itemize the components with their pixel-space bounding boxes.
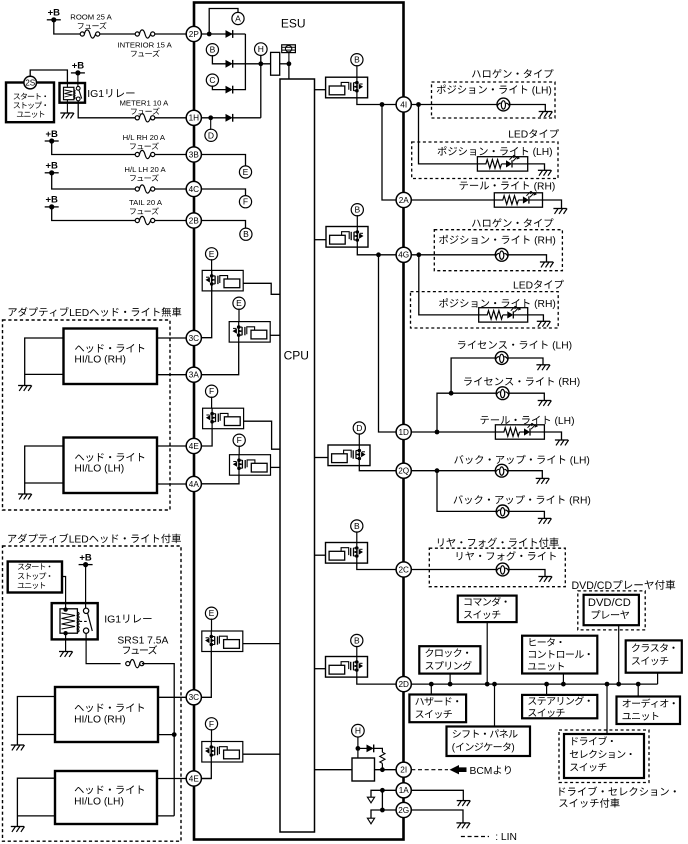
junction — [636, 682, 641, 687]
label LED type — [508, 129, 559, 141]
label backup light LH — [454, 455, 590, 467]
wire to CPU — [243, 643, 280, 645]
diode B — [226, 60, 233, 68]
label backup light RH — [454, 495, 591, 507]
svg-text:(RH): (RH) — [534, 181, 556, 192]
wire — [508, 358, 543, 365]
wire — [158, 734, 174, 736]
svg-text:E: E — [209, 249, 215, 259]
node 2I — [396, 762, 411, 777]
svg-text:(LH): (LH) — [552, 341, 572, 352]
label IG1 relay — [87, 88, 134, 100]
legend dash — [461, 836, 489, 838]
wire — [657, 673, 659, 684]
junction — [429, 682, 434, 687]
wire — [411, 104, 497, 106]
wire — [411, 431, 495, 433]
wire — [201, 475, 239, 484]
junction — [380, 808, 385, 813]
label rear fog light — [457, 551, 556, 560]
ground — [457, 801, 471, 806]
label position light LH — [437, 85, 552, 97]
node 2C — [396, 562, 411, 577]
wire from CPU — [315, 668, 326, 670]
svg-text:F: F — [243, 197, 248, 207]
label position light RH — [439, 298, 556, 310]
svg-text:LED: LED — [69, 534, 89, 545]
wire — [508, 471, 542, 479]
driver U-B1 — [326, 77, 368, 98]
lamp rear fog — [496, 563, 509, 576]
box heater control unit — [522, 636, 597, 674]
svg-text:B: B — [243, 229, 249, 239]
svg-text:E: E — [243, 167, 249, 177]
ground — [59, 652, 73, 657]
label TAIL 20 A — [129, 198, 163, 207]
junction — [208, 115, 213, 120]
label from BCM — [470, 766, 511, 777]
diode 1H — [226, 114, 233, 122]
wire to node A — [209, 9, 238, 35]
label IG1 relay 2 — [104, 614, 151, 626]
ground — [536, 365, 550, 370]
label fuse — [123, 645, 157, 654]
svg-text:IG1: IG1 — [87, 88, 104, 100]
wire — [155, 188, 186, 190]
label fuse — [130, 207, 159, 214]
wire — [430, 684, 432, 694]
wire — [238, 309, 240, 322]
driver U-E2 — [229, 322, 270, 343]
node 2Q — [396, 463, 411, 478]
junction — [605, 682, 610, 687]
junction — [287, 61, 292, 66]
ground — [540, 262, 554, 267]
box drive selection outer — [559, 730, 649, 783]
node 4E — [186, 438, 201, 453]
box section dashed 2 — [3, 546, 182, 841]
wire — [449, 674, 451, 685]
node B — [351, 54, 363, 66]
node 3A — [186, 367, 201, 382]
lamp backup LH — [495, 464, 508, 477]
wire 4I to 2A — [382, 105, 396, 201]
box shift panel — [447, 727, 531, 757]
legend LIN — [495, 832, 517, 843]
floating terminal — [367, 818, 374, 824]
battery +B ROOM — [47, 8, 61, 23]
label fuse — [131, 108, 160, 115]
svg-text:SRS1 7.5A: SRS1 7.5A — [117, 636, 168, 647]
box section dashed — [3, 320, 171, 510]
svg-text:4E: 4E — [189, 442, 200, 451]
svg-text:2I: 2I — [400, 766, 407, 775]
wire — [211, 397, 213, 409]
wire — [356, 65, 358, 77]
wire — [411, 470, 495, 472]
lamp license RH — [496, 387, 509, 400]
label METER1 10 A — [120, 99, 170, 108]
wire — [509, 393, 544, 400]
box clock spring — [419, 646, 480, 673]
junction — [416, 252, 421, 257]
wire — [158, 696, 186, 698]
wire — [17, 697, 55, 746]
wire to CPU — [243, 283, 280, 294]
wire — [356, 531, 358, 542]
box commander switch — [458, 596, 517, 623]
svg-text:B: B — [210, 45, 216, 55]
junction — [448, 682, 453, 687]
fuse TAIL 20 A — [135, 216, 155, 224]
svg-text:): ) — [511, 743, 514, 754]
label H/L RH 20 A — [123, 133, 166, 142]
junction — [492, 682, 497, 687]
wire — [25, 482, 64, 484]
ground — [538, 577, 552, 582]
junction — [616, 682, 621, 687]
box hazard switch — [409, 695, 466, 723]
svg-text:HI/LO (LH): HI/LO (LH) — [74, 796, 124, 807]
label unit — [17, 111, 44, 118]
wire from CPU — [315, 89, 326, 91]
svg-text:3B: 3B — [189, 150, 200, 159]
wire — [451, 358, 495, 393]
wire — [358, 747, 367, 749]
svg-text:B: B — [354, 205, 360, 215]
svg-text:4A: 4A — [189, 480, 200, 489]
wire — [25, 338, 64, 386]
ground — [18, 386, 32, 391]
svg-text:ROOM 25 A: ROOM 25 A — [70, 13, 112, 22]
svg-text:DVD/CD: DVD/CD — [588, 597, 631, 609]
LED resistor lamp — [479, 306, 528, 322]
wire — [357, 737, 359, 758]
wire — [155, 220, 186, 222]
wire LIN to BCM — [411, 769, 448, 771]
node 1A — [396, 783, 411, 798]
svg-text:B: B — [354, 55, 360, 65]
box LED RH — [411, 292, 559, 328]
wire — [637, 684, 639, 696]
battery +B H/L RH — [45, 129, 59, 144]
wire — [357, 247, 396, 255]
box rear fog — [429, 548, 565, 587]
label HI/LO LH — [74, 796, 124, 807]
node B — [351, 204, 363, 216]
node 4I — [396, 97, 411, 112]
wire — [78, 101, 136, 118]
ground — [538, 170, 552, 175]
svg-text:4G: 4G — [398, 251, 409, 260]
relay IG1 box — [60, 83, 86, 103]
relay coil 2 — [60, 609, 79, 633]
node 2A — [396, 192, 411, 207]
svg-text:ESU: ESU — [281, 17, 306, 31]
wire — [201, 342, 238, 375]
wire — [62, 577, 66, 610]
label fuse — [78, 22, 107, 29]
wire — [528, 315, 544, 321]
LED resistor lamp — [477, 155, 527, 171]
wire — [411, 810, 463, 823]
wire — [201, 117, 225, 119]
LED resistor lamp — [494, 191, 542, 207]
node 1H — [186, 110, 201, 125]
wire — [508, 255, 546, 262]
driver U-F1 — [203, 408, 244, 429]
ESU box — [194, 3, 404, 840]
label H/L LH 20 A — [124, 165, 166, 174]
node 4C — [186, 181, 201, 196]
wire — [233, 117, 261, 119]
wire — [77, 73, 79, 87]
CPU label — [284, 349, 309, 363]
node 3C — [186, 330, 201, 345]
wire — [411, 199, 494, 201]
wire — [528, 164, 545, 170]
junction — [172, 732, 177, 737]
node F — [239, 196, 251, 208]
svg-text:(LH): (LH) — [532, 85, 552, 96]
wire — [562, 674, 564, 685]
junction — [561, 682, 566, 687]
label INTERIOR 15 A — [117, 41, 172, 50]
box headlight RH — [64, 329, 158, 385]
box headlight RH 2 — [55, 687, 158, 742]
label drive selection with 1 — [559, 786, 675, 795]
label stop — [18, 572, 50, 579]
driver U-D — [328, 445, 370, 466]
svg-text:LED: LED — [513, 280, 533, 291]
svg-text:(RH): (RH) — [558, 377, 580, 388]
label halogen type — [472, 69, 553, 78]
svg-text:H/L RH 20 A: H/L RH 20 A — [123, 133, 166, 142]
CPU box — [280, 79, 315, 832]
node 2D — [396, 677, 411, 692]
svg-text:C: C — [209, 75, 215, 85]
label position light RH — [439, 235, 556, 247]
box cluster switch — [626, 640, 682, 672]
wire — [52, 173, 136, 189]
driver block 2I — [352, 758, 375, 781]
lamp position LH — [497, 98, 510, 111]
wire — [157, 374, 186, 376]
diode H — [367, 745, 374, 753]
wire — [211, 619, 213, 631]
label adaptive LED headlight without — [9, 307, 182, 319]
battery +B TAIL — [45, 195, 59, 210]
wire — [357, 98, 396, 105]
ESU label — [281, 17, 306, 31]
wire — [86, 633, 121, 663]
svg-text:+B: +B — [79, 552, 92, 563]
box headlight LH — [64, 438, 158, 494]
svg-text:HI/LO (RH): HI/LO (RH) — [74, 714, 126, 725]
node 2P — [186, 26, 201, 41]
arrow BCM — [450, 765, 467, 774]
junction — [207, 32, 212, 37]
wire — [85, 565, 87, 609]
label fuse — [130, 174, 159, 181]
node 3B — [186, 147, 201, 162]
svg-text:DVD/CD: DVD/CD — [572, 580, 613, 592]
wire — [100, 33, 136, 35]
svg-text:(RH): (RH) — [569, 496, 591, 507]
svg-text:2Q: 2Q — [398, 467, 409, 476]
LIN bus — [411, 683, 657, 685]
node E — [205, 607, 217, 619]
wire — [371, 810, 396, 818]
wire — [374, 748, 383, 752]
wire — [212, 86, 225, 90]
node E — [206, 248, 218, 260]
box DVD/CD outer — [578, 591, 645, 630]
box drive selection switch — [564, 734, 644, 778]
label position light LH — [438, 146, 553, 158]
relay coil — [64, 87, 76, 99]
wire — [356, 646, 358, 657]
svg-text:+B: +B — [45, 129, 58, 140]
svg-text:1A: 1A — [399, 786, 410, 795]
wire — [381, 763, 383, 769]
junction — [258, 61, 263, 66]
svg-text:HI/LO (LH): HI/LO (LH) — [74, 463, 124, 474]
wire — [52, 141, 136, 155]
junction — [435, 468, 440, 473]
svg-text:2C: 2C — [398, 565, 409, 574]
fuse SRS1 — [126, 659, 144, 667]
box LED LH — [412, 142, 558, 179]
wire — [419, 255, 479, 315]
wire — [201, 33, 245, 35]
svg-text:(LH): (LH) — [533, 147, 553, 158]
svg-text:2G: 2G — [398, 806, 409, 815]
wire — [371, 790, 396, 797]
node C — [206, 74, 218, 86]
label tail light LH — [480, 416, 574, 427]
wire rail A-C — [233, 34, 246, 90]
label DVD/CD player with — [572, 580, 676, 592]
wire from CPU — [315, 457, 329, 459]
wire — [357, 563, 396, 569]
svg-text:(RH): (RH) — [534, 236, 556, 247]
wire — [157, 337, 186, 339]
wire — [202, 762, 212, 779]
wire — [437, 471, 496, 512]
wire — [211, 729, 213, 741]
wire — [233, 63, 271, 65]
junction — [380, 102, 385, 107]
label license light LH — [458, 341, 572, 352]
wire — [356, 215, 358, 226]
wire — [211, 259, 213, 270]
ground — [18, 494, 32, 499]
svg-text:H: H — [355, 726, 361, 736]
svg-text:METER1 10 A: METER1 10 A — [120, 99, 170, 108]
wire to CPU — [288, 64, 290, 79]
wire from CPU — [315, 554, 326, 556]
wire — [280, 63, 289, 65]
wire — [201, 155, 245, 166]
wire — [157, 445, 186, 447]
wire — [494, 684, 496, 726]
node 4E — [186, 771, 201, 786]
driver U-E3 — [202, 631, 243, 652]
wire — [201, 429, 212, 446]
wire — [65, 633, 67, 651]
wire — [202, 652, 212, 698]
wire — [510, 105, 546, 112]
node H — [352, 724, 365, 737]
junction — [435, 430, 440, 435]
wire — [155, 117, 186, 119]
label stop — [14, 102, 46, 109]
ground — [555, 440, 569, 445]
wire — [437, 393, 496, 432]
label headlight — [75, 785, 144, 794]
svg-text:TAIL 20 A: TAIL 20 A — [129, 198, 163, 207]
svg-text:+B: +B — [45, 195, 58, 206]
junction — [449, 391, 454, 396]
node A — [232, 12, 244, 24]
wire — [17, 734, 55, 736]
wire — [157, 815, 174, 817]
node B — [351, 634, 363, 646]
fuse H/L RH 20 A — [135, 150, 155, 158]
box halogen LH — [432, 82, 556, 118]
diode 2P — [226, 30, 233, 38]
svg-text:H/L LH 20 A: H/L LH 20 A — [124, 165, 166, 174]
svg-text:4E: 4E — [189, 774, 200, 783]
node 4A — [186, 476, 201, 491]
wire — [25, 446, 64, 494]
wire — [486, 622, 488, 684]
svg-text:E: E — [209, 608, 215, 618]
node E — [233, 297, 245, 309]
svg-text:(LH): (LH) — [570, 455, 590, 466]
svg-text:BCM: BCM — [470, 766, 493, 777]
box steering switch — [522, 695, 597, 718]
wire — [155, 33, 186, 35]
svg-text:A: A — [235, 14, 241, 24]
wire — [52, 207, 136, 221]
fuse INTERIOR 15 A — [135, 30, 155, 38]
wire — [211, 270, 213, 291]
battery +B adaptive — [79, 552, 93, 567]
svg-text:1D: 1D — [398, 428, 409, 437]
label adaptive LED headlight with — [8, 533, 181, 545]
wire — [202, 778, 212, 780]
wire — [155, 154, 186, 156]
wire — [201, 221, 245, 229]
wire — [54, 20, 81, 34]
label unit — [18, 582, 45, 589]
svg-text:F: F — [209, 719, 214, 729]
box DVD/CD player — [584, 595, 639, 625]
ground — [60, 113, 74, 118]
svg-text:CPU: CPU — [284, 349, 309, 363]
ground — [537, 321, 551, 326]
node 3C — [186, 690, 201, 705]
junction — [376, 252, 381, 257]
svg-text:1H: 1H — [189, 114, 200, 123]
wire — [411, 569, 496, 571]
svg-text:2P: 2P — [189, 30, 200, 39]
label tail light RH — [460, 181, 556, 192]
driver U-B2 — [326, 227, 368, 248]
wire — [17, 815, 55, 817]
